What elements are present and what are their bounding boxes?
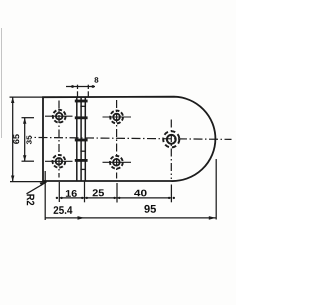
hole column 1 centerline	[58, 101, 60, 178]
hole H2 top-middle	[103, 111, 132, 124]
knuckle crossbar 2	[75, 116, 88, 119]
label 25	[93, 189, 104, 196]
chain dimension line 16-25-40	[56, 182, 175, 203]
knuckle crossbar 3	[75, 139, 88, 142]
dimension 35 (left inner)	[22, 118, 35, 162]
label 95	[144, 205, 156, 213]
R2 leader line	[27, 181, 47, 194]
main horizontal centerline	[31, 137, 232, 139]
label 25.4	[54, 206, 73, 214]
label R2	[27, 194, 35, 205]
knuckle crossbar 1	[75, 100, 88, 103]
label 8	[94, 77, 98, 82]
hole H1 top-left	[45, 110, 73, 123]
dimension 8 (top)	[66, 85, 95, 97]
label 16	[66, 190, 77, 197]
hole column 2 centerline	[116, 100, 118, 179]
large hole vertical centerline	[170, 120, 172, 180]
dimension 65 (left)	[10, 97, 47, 182]
knuckle line left	[76, 97, 78, 181]
label 65	[13, 134, 19, 144]
knuckle crossbar 4	[75, 159, 88, 162]
knuckle pin line b	[84, 97, 86, 181]
knuckle pin line a	[80, 97, 82, 181]
hinge plate outline	[43, 97, 215, 181]
dimension line 25.4 / 95 (bottom)	[45, 159, 216, 220]
hole H3 bottom-left	[45, 155, 73, 168]
knuckle small bar 1	[80, 105, 86, 107]
label 40	[134, 190, 147, 197]
knuckle small bar 2	[80, 150, 86, 152]
hole H4 bottom-middle	[103, 156, 132, 169]
label 35	[26, 136, 31, 145]
knuckle small bar 3	[80, 168, 86, 170]
scan artifact edge line	[1, 28, 3, 138]
hole H5 large right	[163, 131, 179, 147]
